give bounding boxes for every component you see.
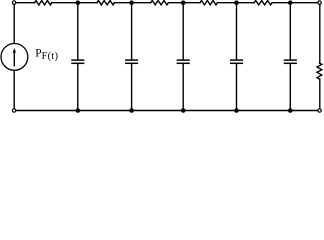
capacitor C3 xyxy=(177,59,189,61)
resistor R3 xyxy=(151,1,169,5)
wire (rung 3 lower: C3 to bottom rail) xyxy=(182,64,184,111)
wire (top rail: terminal A to resistor R1) xyxy=(16,2,34,4)
wire (rung 2 upper: node 2 to capacitor C2) xyxy=(131,3,133,60)
junction node 5 (top, x=290.3) xyxy=(288,0,293,5)
wire (rung 5 upper: node 5 to capacitor C5) xyxy=(289,3,291,60)
junction node 4 (top, x=236.5) xyxy=(234,0,239,5)
capacitor C1 xyxy=(72,59,84,61)
node C (bottom-left terminal, open circle) xyxy=(12,109,15,112)
node D (bottom-right terminal, open circle) xyxy=(318,109,321,112)
svg-text:PF(t): PF(t) xyxy=(35,48,58,63)
wire (top rail: R3 to node 3) xyxy=(168,2,200,4)
node B (top-right output terminal, open circle) xyxy=(318,1,321,4)
junction node 2' (bottom, x=131.6) xyxy=(129,108,134,113)
junction node 5' (bottom, x=290.3) xyxy=(288,108,293,113)
wire (rung 4 lower: C4 to bottom rail) xyxy=(236,64,238,111)
wire (top rail: R5 to node 5 to terminal B) xyxy=(272,2,317,4)
wire (left rail: terminal A down to current source) xyxy=(13,5,15,44)
wire (rung 4 upper: node 4 to capacitor C4) xyxy=(236,3,238,60)
capacitor C5 xyxy=(285,59,297,61)
wire (rung 3 upper: node 3 to capacitor C3) xyxy=(182,3,184,60)
junction node 1' (bottom, x=77.8) xyxy=(76,108,81,113)
wire (top rail: R4 to node 4) xyxy=(218,2,255,4)
resistor R4 xyxy=(200,1,218,5)
resistor R1 xyxy=(35,1,52,5)
wire (right rail lower: R6 down to terminal D) xyxy=(319,79,321,108)
resistor R2 xyxy=(97,1,114,5)
current source I1 arrow (pointing up) xyxy=(13,52,15,66)
wire (rung 2 lower: C2 to bottom rail) xyxy=(131,64,133,111)
wire (top rail: R1 to node 1) xyxy=(52,2,97,4)
resistor R6 (vertical load) xyxy=(317,63,322,79)
wire (right rail upper: terminal B down to resistor R6) xyxy=(319,5,321,63)
junction node 4' (bottom, x=236.5) xyxy=(234,108,239,113)
junction node 3' (bottom, x=183.2) xyxy=(181,108,186,113)
wire (bottom rail, full span) xyxy=(16,110,317,112)
junction node 3 (top, x=183.2) xyxy=(181,0,186,5)
wire (rung 1 upper: node 1 to capacitor C1) xyxy=(77,3,79,60)
wire (left rail: current source down to bottom terminal) xyxy=(13,70,15,108)
node A (top-left input terminal, open circle) xyxy=(12,1,15,4)
capacitor C4 xyxy=(231,59,243,61)
wire (top rail: R2 to node 2) xyxy=(114,2,150,4)
wire (rung 1 lower: C1 to bottom rail) xyxy=(77,64,79,111)
junction node 1 (top, x=77.8) xyxy=(76,0,81,5)
junction node 2 (top, x=131.6) xyxy=(129,0,134,5)
resistor R5 xyxy=(254,1,272,5)
current source I1 (circle) xyxy=(1,44,28,71)
wire (rung 5 lower: C5 to bottom rail) xyxy=(289,64,291,111)
capacitor C2 xyxy=(126,59,138,61)
